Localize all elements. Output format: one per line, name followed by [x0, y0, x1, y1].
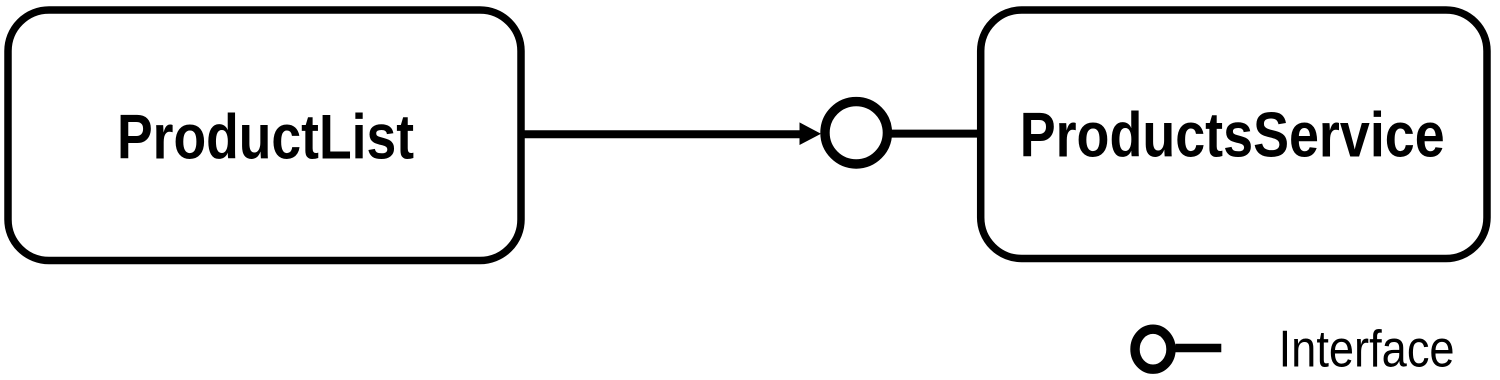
svg-text:ProductsService: ProductsService — [1020, 101, 1445, 171]
interface lollipop circle — [825, 102, 887, 164]
component box ProductList — [8, 10, 521, 261]
wire from ProductList to interface (arrow shaft) — [521, 130, 801, 138]
wire from interface to ProductsService — [891, 130, 981, 138]
legend interface stub line — [1176, 344, 1222, 353]
component box ProductsService — [981, 10, 1487, 259]
svg-text:ProductList: ProductList — [117, 103, 414, 173]
arrowhead at interface — [800, 122, 822, 145]
svg-text:Interface: Interface — [1279, 321, 1455, 379]
legend interface circle — [1135, 329, 1171, 369]
